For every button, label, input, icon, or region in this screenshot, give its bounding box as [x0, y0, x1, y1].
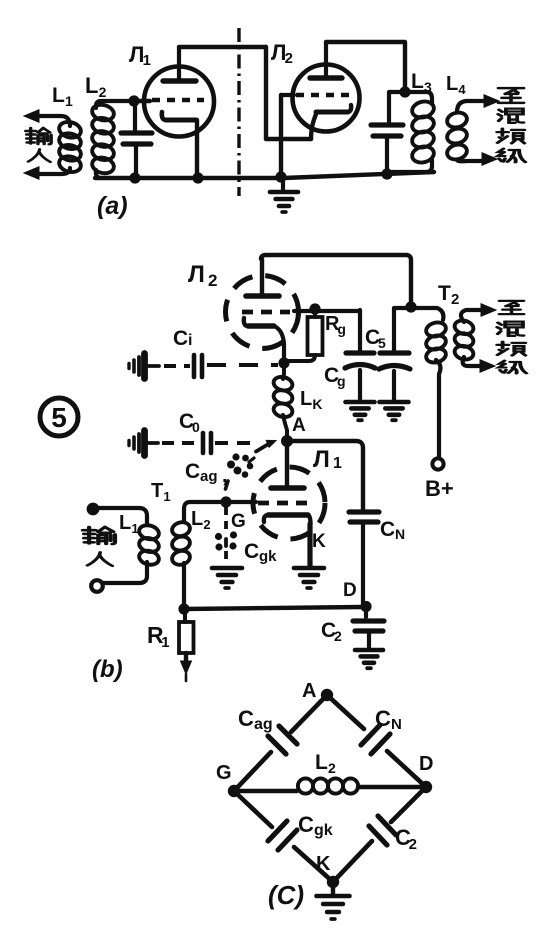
svg-text:L: L [52, 84, 65, 107]
node junction grid/Rg (fig b) [309, 303, 320, 314]
tube V2b anode (fig b) [246, 293, 279, 299]
tube V1 grid (fig a) [152, 98, 204, 103]
text to-mixer label 至混频级 (fig a) [498, 88, 523, 103]
svg-text:C: C [375, 706, 391, 731]
svg-text:i: i [188, 332, 192, 349]
inductor L4 (fig a) [446, 111, 469, 130]
capacitor C2 lead (fig b) [364, 607, 368, 617]
svg-text:B+: B+ [425, 476, 454, 501]
capacitor C5 lead (fig b) [394, 308, 411, 350]
text input label 输入 (fig b) [83, 527, 115, 544]
wire L2 bottom lead (fig b) [182, 563, 186, 606]
node junction J anode/C5/T2 (fig b) [405, 301, 416, 312]
svg-text:ag: ag [200, 468, 218, 485]
wire CN to D (fig b) [361, 524, 365, 604]
wire L3 top branch (fig a) [405, 92, 432, 104]
capacitor Cag plates (fig c) [279, 726, 297, 744]
svg-text:K: K [316, 853, 331, 875]
node G (fig c) [228, 785, 240, 797]
svg-text:2: 2 [334, 628, 342, 644]
svg-text:(a): (a) [97, 192, 128, 220]
node A (fig b) [281, 435, 293, 447]
wire Ci left lead (fig b) [146, 364, 159, 368]
wire input arrow bottom (fig a) [36, 168, 70, 174]
wire T2 secondary bottom arrow (fig b) [463, 357, 481, 366]
svg-text:5: 5 [378, 335, 386, 351]
tube V1 cathode (fig a) [162, 112, 166, 120]
stray path symbol C0 left (fig b) [127, 441, 130, 446]
figure number circled 5 [40, 398, 78, 436]
node junction grid2/rail (fig a) [275, 171, 286, 182]
svg-text:N: N [395, 526, 405, 542]
capacitor tank C lead lower (fig a) [134, 146, 138, 176]
capacitor Cgk plates (fig c) [268, 821, 287, 841]
node junction cathode1/rail (fig a) [192, 172, 203, 183]
transformer T2 primary top (fig b) [412, 308, 443, 320]
wire L2 top to grid junction (fig a) [131, 99, 150, 103]
resistor R1 (fig b) [183, 611, 187, 622]
node junction R1 (fig b) [178, 603, 189, 614]
svg-text:gk: gk [314, 822, 333, 839]
capacitor Ci dashes right (fig b) [207, 363, 278, 367]
svg-text:2: 2 [328, 760, 336, 776]
tube V2 cathode (fig a) [316, 110, 348, 115]
svg-text:1: 1 [65, 93, 73, 109]
transformer T1 secondary coil L2 (fig b) [171, 520, 192, 538]
svg-text:(b): (b) [92, 656, 123, 683]
svg-text:2: 2 [451, 291, 459, 308]
svg-text:Л: Л [188, 261, 205, 288]
tube V2 grid (fig a) [296, 93, 352, 98]
ground below Cg (fig b) [346, 400, 375, 405]
wire arm D-K (fig c) [391, 787, 426, 822]
wire ground rail (fig a) [95, 172, 434, 178]
wire anode V2 to L3 (fig a) [326, 42, 405, 90]
svg-text:Л: Л [313, 446, 330, 473]
capacitor Cg lead (fig b) [358, 310, 362, 350]
tube V1 anode (fig a) [163, 78, 196, 83]
capacitor C2 lower lead (fig b) [367, 633, 371, 647]
transformer T1 primary coil L1 (fig b) [138, 523, 161, 541]
ground below C2 (fig b) [355, 648, 383, 653]
svg-text:ag: ag [254, 716, 273, 733]
svg-text:gk: gk [259, 548, 277, 565]
ground below K (fig b) [294, 566, 324, 571]
tube V2b cathode (fig b) [244, 318, 248, 326]
wire top rail down (fig a) [264, 47, 268, 139]
node junction anode/L3 (fig a) [399, 86, 410, 97]
ground below Cgk (fig b) [212, 566, 242, 571]
svg-text:1: 1 [163, 489, 170, 504]
tube V1b grid (fig b) [258, 501, 310, 506]
wire V2 grid to ground rail (fig a) [279, 95, 283, 177]
shield partition dash-dot line (fig a) [237, 28, 240, 196]
tube V1 envelope (fig a) [144, 67, 214, 137]
stray path symbol Ci left (fig b) [127, 364, 130, 369]
svg-text:D: D [343, 580, 357, 601]
transformer T1 secondary top (fig b) [184, 502, 228, 521]
capacitor Cgk dot-cluster (fig b) [215, 533, 222, 540]
terminal input bottom (fig b) [91, 580, 103, 592]
inductor LK (fig b) [283, 363, 284, 379]
svg-text:2: 2 [409, 836, 417, 853]
ground symbol (fig a) [281, 178, 285, 190]
svg-text:C: C [244, 540, 259, 563]
ground at K (fig c) [331, 882, 335, 894]
wire arm G-K (fig c) [234, 791, 272, 827]
wire L3 bottom branch (fig a) [392, 160, 432, 172]
node A (fig c) [321, 689, 333, 701]
svg-text:4: 4 [458, 82, 466, 97]
capacitor tank C lead (fig a) [133, 101, 137, 130]
wire anode top rail (fig b) [261, 255, 411, 304]
svg-text:L: L [315, 751, 328, 774]
wire input bottom lead (fig b) [103, 562, 147, 583]
svg-text:L: L [119, 512, 131, 534]
node junction cathode/Rg/Ci/LK (fig b) [278, 357, 289, 368]
node junction tank2/rail (fig a) [381, 168, 392, 179]
svg-text:g: g [337, 373, 346, 389]
svg-text:T: T [438, 282, 451, 305]
wire T2 secondary top arrow (fig b) [461, 310, 483, 322]
node junction L2/cap (fig a) [128, 95, 139, 106]
capacitor Cg lower lead (fig b) [358, 370, 362, 400]
svg-text:C: C [238, 706, 254, 731]
capacitor Ci plates (fig b) [192, 355, 197, 377]
terminal B+ (fig b) [432, 458, 443, 469]
capacitor C0 dashes left (fig b) [162, 441, 198, 445]
wire coupling horizontal (fig a) [266, 137, 311, 141]
transformer T2 primary coil (fig b) [425, 320, 448, 338]
wire arm A-D (fig c) [327, 695, 364, 729]
tube V1b envelope dashed (fig b) [253, 467, 325, 539]
capacitor Cg plates (fig b) [346, 350, 374, 355]
svg-text:C: C [298, 812, 314, 837]
wire bottom rail (fig b) [184, 607, 362, 609]
capacitor tank2 plates (fig a) [371, 122, 403, 127]
inductor L3 (fig a) [410, 99, 435, 119]
tube V2b envelope dashed (fig b) [226, 276, 299, 349]
svg-text:C: C [173, 327, 188, 350]
svg-text:L: L [446, 73, 458, 95]
capacitor Cag dot-cluster (fig b) [232, 453, 239, 460]
text to-mixer label 至混频级 (fig b) [499, 301, 523, 314]
node D (fig b) [360, 601, 371, 612]
capacitor C5 plates (fig b) [380, 350, 409, 355]
wire input arrow top (fig a) [36, 116, 70, 126]
text input label 输入 (fig a) [26, 128, 52, 144]
svg-text:L: L [85, 73, 98, 98]
transformer T2 primary bottom (fig b) [436, 360, 440, 457]
resistor Rg (fig b) [313, 309, 317, 317]
capacitor CN plates (fig b) [349, 509, 379, 514]
capacitor Ci dashes left (fig b) [164, 364, 190, 368]
svg-text:1: 1 [161, 634, 169, 651]
node junction cap/rail (fig a) [129, 172, 140, 183]
tube V1b anode (fig b) [285, 441, 289, 485]
svg-text:2: 2 [208, 271, 217, 290]
wire C0 left lead (fig b) [146, 441, 158, 445]
svg-text:G: G [231, 511, 246, 532]
capacitor Cgk dashes upper (fig b) [224, 507, 228, 530]
svg-text:C: C [185, 460, 200, 483]
wire cathode V2 drop (fig a) [311, 114, 316, 139]
svg-text:2: 2 [203, 517, 210, 532]
capacitor C0 dashes right (fig b) [215, 441, 250, 445]
svg-text:1: 1 [131, 521, 138, 536]
transformer T2 secondary coil (fig b) [453, 319, 475, 336]
svg-text:N: N [391, 716, 402, 733]
wire arm A-G (fig c) [291, 695, 327, 732]
capacitor C2 plates (fig c) [378, 816, 396, 835]
wire C-tank branch (fig a) [389, 92, 405, 122]
svg-text:L: L [300, 388, 312, 410]
svg-text:G: G [216, 762, 232, 784]
svg-text:1: 1 [333, 455, 342, 472]
wire L4 top arrow (fig a) [457, 101, 486, 112]
svg-text:,: , [222, 465, 228, 487]
terminal input top (fig b) [87, 503, 100, 516]
capacitor C5 lower lead (fig b) [392, 371, 396, 400]
inductor L2 (fig c) [234, 789, 297, 793]
node G (fig b) [220, 496, 231, 507]
ground below C5 (fig b) [380, 400, 409, 405]
svg-text:0: 0 [192, 419, 200, 435]
svg-text:1: 1 [143, 52, 151, 69]
wire L4 bottom arrow (fig a) [457, 160, 485, 161]
svg-text:5: 5 [51, 402, 67, 433]
wire anode V1 to top rail (fig a) [179, 45, 266, 49]
svg-text:A: A [302, 680, 316, 702]
capacitor tank2 lower lead (fig a) [385, 138, 389, 173]
svg-text:C: C [380, 518, 395, 541]
tube V2 anode (fig a) [310, 75, 342, 80]
tube V2b grid (fig b) [242, 310, 290, 315]
capacitor Cgk dashes lower (fig b) [224, 551, 228, 565]
svg-text:g: g [337, 321, 346, 337]
svg-text:L: L [411, 70, 424, 93]
svg-text:2: 2 [285, 50, 293, 67]
inductor L2 (fig a) [90, 103, 115, 123]
svg-text:K: K [312, 531, 326, 552]
capacitor C0 plates (fig b) [201, 433, 206, 453]
node K (fig c) [327, 876, 339, 888]
wire cathode K lead (fig b) [307, 524, 312, 566]
capacitor tank C plates (fig a) [121, 130, 152, 135]
capacitor C2 plates (fig b) [353, 618, 384, 623]
wire input top lead (fig b) [99, 508, 147, 524]
svg-text:2: 2 [99, 84, 107, 100]
node D (fig c) [420, 781, 432, 793]
svg-text:D: D [419, 753, 433, 775]
tube V1b cathode (fig b) [264, 515, 268, 522]
svg-text:L: L [191, 508, 203, 530]
svg-text:K: K [312, 396, 322, 412]
wire node A to CN (fig b) [287, 441, 363, 509]
svg-text:A: A [292, 415, 306, 436]
inductor L1 (fig a) [57, 120, 82, 140]
svg-text:T: T [151, 480, 163, 502]
capacitor CN plates (fig c) [361, 725, 380, 745]
svg-text:(C): (C) [268, 880, 304, 910]
svg-text:3: 3 [424, 79, 432, 95]
tube V2 envelope (fig a) [293, 65, 360, 132]
